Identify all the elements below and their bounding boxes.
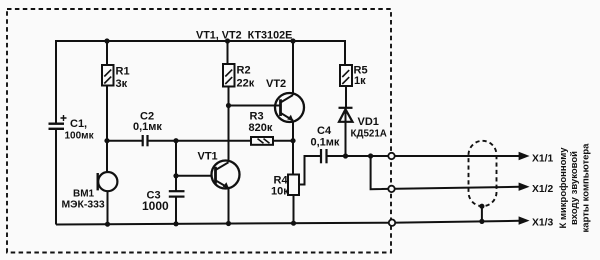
svg-text:МЭК-333: МЭК-333	[62, 200, 105, 211]
svg-text:C1,: C1,	[70, 118, 87, 130]
svg-text:карты компьютера: карты компьютера	[581, 143, 592, 233]
svg-text:VT2: VT2	[266, 78, 286, 90]
svg-text:1000: 1000	[142, 199, 169, 213]
svg-text:X1/1: X1/1	[532, 153, 553, 164]
svg-text:КД521А: КД521А	[351, 129, 387, 140]
svg-text:ВМ1: ВМ1	[73, 189, 95, 200]
svg-text:10к: 10к	[271, 186, 289, 198]
svg-text:100мк: 100мк	[65, 131, 95, 142]
svg-text:VT1, VT2 КТ3102Е: VT1, VT2 КТ3102Е	[196, 30, 292, 42]
svg-text:R2: R2	[237, 65, 251, 77]
svg-text:VT1: VT1	[198, 151, 218, 163]
svg-text:VD1: VD1	[358, 116, 379, 128]
svg-text:X1/2: X1/2	[532, 184, 553, 195]
svg-text:X1/3: X1/3	[532, 218, 553, 229]
svg-text:входу звуковой: входу звуковой	[569, 151, 580, 225]
svg-text:К микрофонному: К микрофонному	[558, 147, 569, 229]
svg-text:0,1мк: 0,1мк	[311, 137, 340, 149]
svg-text:22к: 22к	[237, 78, 255, 90]
svg-text:3к: 3к	[116, 78, 128, 90]
svg-text:820к: 820к	[249, 122, 273, 134]
svg-text:1к: 1к	[354, 75, 366, 87]
svg-text:0,1мк: 0,1мк	[133, 121, 162, 133]
svg-text:C4: C4	[317, 125, 332, 137]
svg-text:R3: R3	[250, 111, 264, 123]
svg-text:R1: R1	[116, 66, 130, 78]
